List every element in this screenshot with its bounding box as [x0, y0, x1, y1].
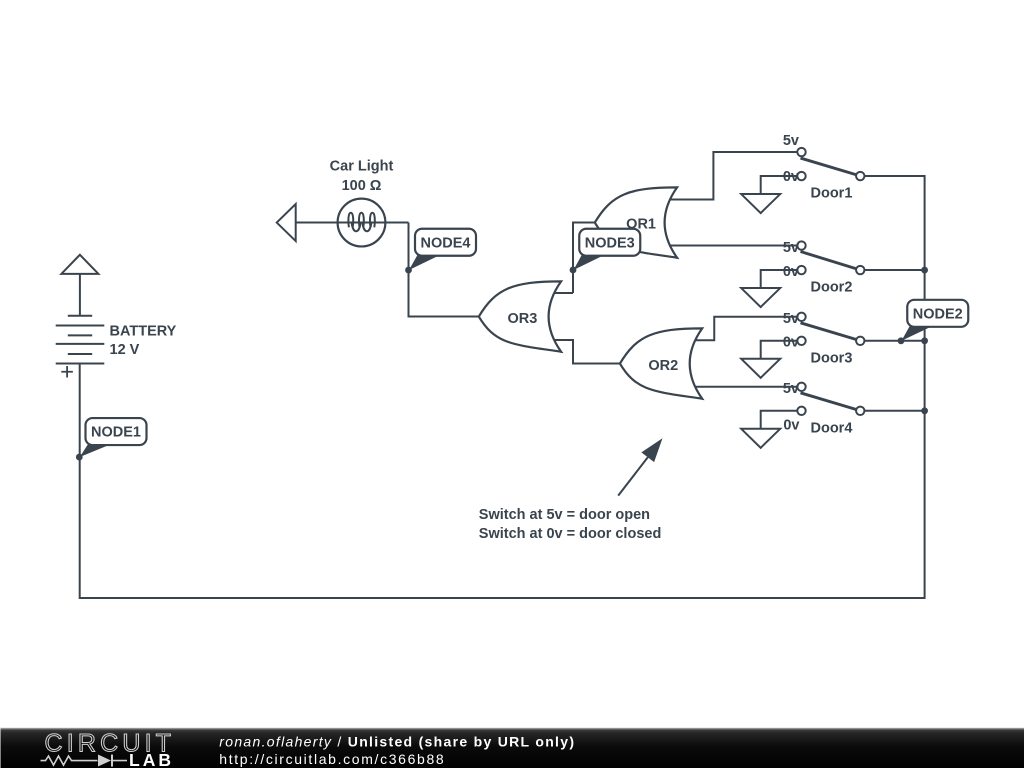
svg-text:12 V: 12 V	[110, 342, 140, 358]
wire Door4 common to bus	[865, 410, 925, 412]
wire OR2 bottom input to Door4 5v	[691, 386, 798, 388]
svg-text:NODE3: NODE3	[585, 235, 635, 251]
CircuitLab logo	[41, 730, 176, 768]
wire main loop: battery negative to bottom rail to right bus	[80, 176, 925, 598]
svg-text:OR2: OR2	[648, 358, 678, 374]
annotation text	[479, 507, 662, 542]
wire Door2 common to bus	[865, 269, 925, 271]
svg-text:Switch at 5v = door open: Switch at 5v = door open	[479, 507, 650, 523]
node NODE3 flag	[570, 229, 641, 274]
switch Door4 (SPDT)	[797, 383, 864, 415]
svg-text:100 Ω: 100 Ω	[342, 178, 382, 194]
junction dot on bus y=410.25	[921, 407, 928, 414]
wire lamp output with left arrow terminal	[277, 204, 409, 241]
svg-text:0v: 0v	[783, 264, 799, 280]
node NODE2 flag	[898, 300, 969, 344]
wire Door2 0v to ground	[761, 270, 798, 288]
ground symbol (Door3 0v)	[741, 359, 780, 378]
wire NODE4 net: lamp to OR3 output	[409, 223, 479, 317]
wire Door4 0v to ground	[761, 411, 798, 429]
ground symbol (Door4 0v)	[741, 429, 780, 448]
node NODE4 flag	[405, 229, 476, 274]
svg-text:Car Light: Car Light	[330, 159, 394, 175]
svg-text:NODE4: NODE4	[421, 235, 471, 251]
wire Door3 common to bus	[865, 340, 925, 342]
svg-text:OR3: OR3	[507, 311, 537, 327]
wire OR1 top input to Door1 5v	[669, 152, 798, 200]
svg-text:Door1: Door1	[811, 186, 853, 202]
or-gate OR1	[595, 187, 677, 257]
wire OR3 bottom input to OR2 output	[552, 340, 620, 364]
annotation arrow	[618, 438, 662, 495]
svg-text:LAB: LAB	[129, 750, 174, 768]
wire Door3 0v to ground	[761, 341, 798, 359]
wire Door1 common to bus	[865, 175, 925, 177]
svg-text:0v: 0v	[783, 417, 799, 433]
svg-text:0v: 0v	[783, 335, 799, 351]
wire NODE3 net: OR3 top input up to OR1 output	[552, 223, 595, 293]
ground symbol (Door2 0v)	[741, 288, 780, 307]
junction dot on bus y=269.5	[921, 267, 928, 274]
svg-text:ronan.oflaherty / Unlisted (sh: ronan.oflaherty / Unlisted (share by URL…	[219, 734, 575, 750]
svg-text:5v: 5v	[783, 133, 799, 149]
battery BATTERY 12V	[56, 255, 177, 378]
svg-text:0v: 0v	[783, 169, 799, 185]
svg-text:NODE1: NODE1	[91, 425, 141, 441]
lamp L1 Car Light 100 ohm	[330, 159, 394, 247]
svg-text:5v: 5v	[783, 240, 799, 256]
switch Door1 (SPDT)	[797, 148, 864, 180]
or-gate OR2	[620, 328, 702, 398]
svg-text:BATTERY: BATTERY	[110, 323, 177, 339]
svg-text:Switch at 0v = door closed: Switch at 0v = door closed	[479, 526, 662, 542]
svg-text:http://circuitlab.com/c366b88: http://circuitlab.com/c366b88	[219, 751, 445, 767]
wire Door1 0v to ground	[761, 176, 798, 194]
switch Door2 (SPDT)	[797, 241, 864, 274]
or-gate OR3	[479, 281, 561, 351]
wire OR2 top input to Door3 5v	[691, 317, 798, 341]
svg-text:Door2: Door2	[811, 280, 853, 296]
ground symbol (Door1 0v)	[741, 194, 780, 213]
svg-text:5v: 5v	[783, 381, 799, 397]
junction dot on bus y=340.25	[921, 337, 928, 344]
node NODE1 flag	[76, 418, 147, 460]
switch Door3 (SPDT)	[797, 313, 864, 345]
svg-text:Door3: Door3	[811, 350, 853, 366]
svg-text:5v: 5v	[783, 311, 799, 327]
svg-text:Door4: Door4	[811, 420, 853, 436]
svg-text:NODE2: NODE2	[913, 306, 963, 322]
wire OR1 bottom input to Door2 5v	[669, 245, 798, 247]
